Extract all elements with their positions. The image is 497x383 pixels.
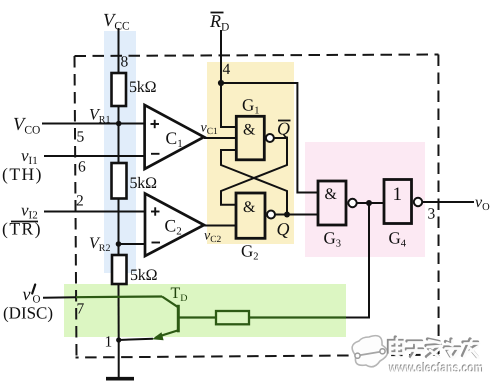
wire vC2 to G2: [204, 225, 236, 227]
wire pin7 lead outside: [43, 296, 76, 299]
wire Q output to G3 input: [275, 214, 318, 216]
svg-text:&: &: [243, 122, 256, 139]
wire pin1 node to ground: [118, 340, 120, 377]
nand gate G2: [236, 193, 265, 238]
highlight band: output gates (pink): [305, 142, 425, 257]
wire divider R2-R3: [118, 199, 120, 256]
svg-text:www.elecfans.com: www.elecfans.com: [389, 361, 484, 376]
transistor Q1 TD base bar: [177, 305, 180, 333]
wire pin7 DISC to collector: [76, 295, 162, 298]
svg-text:4: 4: [223, 61, 231, 78]
node pin1 junction: [116, 337, 121, 342]
svg-text:2: 2: [76, 193, 84, 210]
wire vC1 to G1: [204, 137, 236, 139]
transistor TD emitter arrow: [152, 332, 164, 340]
watermark logo circle: [352, 336, 387, 367]
wire divider R3 to pin1 node: [118, 284, 120, 340]
svg-text:7: 7: [77, 301, 85, 318]
wire Vco pin5 to C1 + input: [42, 123, 145, 125]
wire emitter to pin1 node: [119, 339, 153, 340]
svg-text:8: 8: [121, 54, 129, 71]
highlight band: SR latch (yellow): [207, 62, 294, 244]
wire G4 output to vO pin3: [422, 201, 474, 203]
wire node to transistor base resistor: [346, 203, 369, 318]
watermark chinese characters: [389, 337, 478, 357]
wire G3 to G4: [357, 202, 384, 204]
wire vI1 pin6 to C1 - input: [44, 155, 145, 157]
wire RD to G3 top input: [221, 83, 318, 193]
resistor R1 5k: [112, 73, 127, 106]
svg-text:5kΩ: 5kΩ: [130, 267, 158, 284]
resistor R2 5k: [112, 163, 127, 199]
svg-text:1: 1: [105, 334, 113, 351]
svg-text:Q: Q: [277, 219, 290, 239]
wire base bar to base resistor: [179, 316, 216, 318]
op-amp comparator C1: [145, 105, 204, 169]
wire divider R1-R2: [118, 106, 120, 163]
svg-text:5kΩ: 5kΩ: [129, 79, 157, 96]
highlight band: discharge transistor (green): [64, 284, 346, 337]
node VR1 junction: [116, 121, 122, 127]
svg-text:6: 6: [78, 159, 86, 176]
node VR2 junction: [116, 241, 122, 247]
svg-text:5: 5: [77, 129, 85, 146]
svg-text:1: 1: [393, 184, 403, 205]
node pin4 junction: [218, 80, 224, 86]
ground: [106, 377, 134, 381]
svg-text:3: 3: [428, 206, 436, 223]
svg-text:5kΩ: 5kΩ: [130, 175, 158, 192]
wire Vcc lead: [118, 28, 120, 73]
wire Qbar feedback to G2 input: [221, 138, 287, 205]
op-amp comparator C2: [145, 194, 204, 257]
wire VR2 node to C2 - input: [119, 243, 146, 245]
wire base resistor to node: [249, 316, 346, 318]
svg-text:(DISC): (DISC): [3, 304, 53, 323]
svg-text:&: &: [243, 199, 256, 216]
wire RD to G1 top input: [221, 83, 236, 127]
highlight band: voltage divider (blue): [104, 31, 136, 273]
svg-text:v: v: [23, 284, 31, 304]
inverter G4: [384, 180, 412, 224]
svg-text:&: &: [325, 186, 338, 203]
nand gate G1: [236, 116, 264, 160]
transistor Q1 TD collector lead: [162, 297, 178, 307]
node Q junction: [284, 212, 290, 218]
wire vI2 pin2 to C2 + input: [44, 211, 145, 213]
dashed IC border: [75, 55, 439, 358]
svg-text:(TH): (TH): [2, 164, 43, 184]
wire Q feedback to G1 input: [221, 150, 287, 215]
resistor R3 5k: [112, 255, 127, 284]
nand gate G3: [318, 181, 346, 225]
node G3 output junction: [366, 200, 372, 206]
svg-text:Q: Q: [277, 119, 290, 139]
wire RD lead: [220, 30, 222, 83]
transistor Q1 TD emitter lead: [156, 331, 178, 338]
resistor RB base resistor: [216, 311, 249, 324]
